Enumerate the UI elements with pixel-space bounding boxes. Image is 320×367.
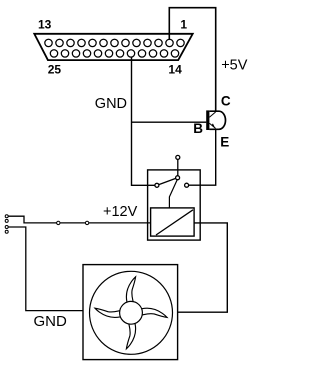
svg-text:13: 13 <box>38 17 52 31</box>
svg-text:GND: GND <box>95 96 127 112</box>
svg-text:+5V: +5V <box>221 57 248 73</box>
svg-text:C: C <box>221 94 231 109</box>
svg-text:1: 1 <box>180 17 187 31</box>
svg-text:E: E <box>220 134 229 149</box>
svg-text:GND: GND <box>34 313 68 330</box>
svg-text:14: 14 <box>168 62 182 76</box>
svg-text:B: B <box>193 121 203 136</box>
svg-text:+12V: +12V <box>103 204 138 220</box>
svg-text:25: 25 <box>48 62 62 76</box>
